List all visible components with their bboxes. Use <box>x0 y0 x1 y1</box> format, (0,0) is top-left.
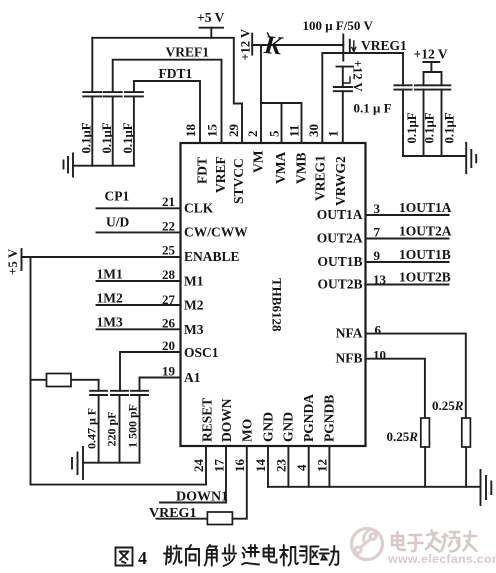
node 1M1 label <box>97 267 123 282</box>
svg-text:GND: GND <box>281 412 296 442</box>
wire ground bus (bottom) <box>268 486 479 488</box>
value label C1 0.1uF <box>80 122 94 153</box>
svg-text:14: 14 <box>253 459 268 473</box>
capacitor C3 0.1uF plates <box>125 92 143 96</box>
svg-text:OUT2B: OUT2B <box>317 277 362 292</box>
pin 13 label OUT2B <box>317 277 362 292</box>
op-amp U1 : THB6128 driver IC body <box>181 143 366 446</box>
wire right cap ground rail <box>403 155 466 157</box>
svg-text:NFA: NFA <box>336 326 363 341</box>
pin 2 label VM <box>251 150 266 173</box>
pin number 15 <box>205 124 220 138</box>
wire +12V to 100uF cap <box>252 44 343 46</box>
capacitor C11 1500pF plates <box>131 391 148 395</box>
pin number 2 <box>245 131 260 138</box>
value label C5 0.1uF <box>354 101 392 116</box>
pin number 17 <box>212 459 227 473</box>
power +12V supply bar (right) <box>414 47 448 63</box>
svg-text:15: 15 <box>205 124 220 138</box>
pin number 26 <box>162 316 176 331</box>
svg-text:29: 29 <box>226 124 241 138</box>
power +5V supply bar (top) <box>197 10 225 28</box>
watermark url www.elecfans.com <box>387 552 496 566</box>
pin 7 label OUT2A <box>317 231 363 246</box>
pin number 10 <box>373 348 386 363</box>
pin number 30 <box>306 124 321 137</box>
wire 1M3 to pin 26 <box>97 328 181 330</box>
wire C8 bottom lead <box>441 90 443 156</box>
pin number 22 <box>162 219 175 234</box>
pin number 5 <box>267 130 282 137</box>
svg-text:0.1μF: 0.1μF <box>443 112 457 143</box>
hanzi 向 <box>186 545 199 566</box>
pin number 25 <box>162 243 176 258</box>
svg-text:M2: M2 <box>184 298 204 313</box>
hanzi 动 <box>320 546 339 565</box>
svg-text:VREG1: VREG1 <box>313 155 328 201</box>
value label C2 0.1uF <box>100 122 114 153</box>
wire R3 bottom lead <box>424 447 426 487</box>
svg-text:0.1 μ F: 0.1 μ F <box>354 101 392 116</box>
svg-text:GND: GND <box>261 412 276 442</box>
pin number 28 <box>162 267 176 282</box>
pin 19 label A1 <box>184 370 201 385</box>
svg-text:11: 11 <box>287 125 302 137</box>
pin 22 label CW/CWW <box>184 225 248 240</box>
svg-text:10: 10 <box>373 348 386 363</box>
wire C11 bottom lead <box>139 395 141 463</box>
wire CP1 to pin 21 <box>97 207 181 209</box>
capacitor C8 0.1uF plates <box>433 85 450 89</box>
pin 25 label ENABLE <box>184 249 240 264</box>
svg-text:STVCC: STVCC <box>231 158 246 204</box>
pin number 14 <box>253 459 268 473</box>
wire cap C1 top lead <box>91 38 93 92</box>
node VREG1 (bottom) label <box>149 506 196 521</box>
pin 12 label PGNDB <box>322 395 337 442</box>
watermark logo circle <box>352 529 383 560</box>
wire pin 7 OUT2A <box>366 238 449 240</box>
node 1M2 label <box>97 291 123 306</box>
wire C9 top lead <box>98 380 100 391</box>
resistor R1 (left, horizontal) <box>31 374 99 387</box>
pin 9 label OUT1B <box>317 254 362 269</box>
wire R4 bottom lead <box>465 447 467 487</box>
pin number 16 <box>232 459 247 473</box>
svg-text:U/D: U/D <box>106 215 130 230</box>
pin number 21 <box>162 194 175 209</box>
pin number 12 <box>315 459 330 472</box>
pin 20 label OSC1 <box>184 345 219 360</box>
pin number 27 <box>162 292 176 307</box>
ground (top-left) <box>64 154 74 177</box>
svg-text:1 500 pF: 1 500 pF <box>126 404 140 448</box>
pin 10 label NFB <box>336 351 363 366</box>
pin 5 label VMA <box>273 152 288 184</box>
pin 28 label M1 <box>184 274 204 289</box>
svg-text:M1: M1 <box>184 274 204 289</box>
svg-text:3: 3 <box>374 201 381 216</box>
pin 3 label OUT1A <box>317 207 363 222</box>
power +12V supply (rotated, feeds VM/VMA/VMB) <box>239 29 253 61</box>
svg-text:K: K <box>262 30 284 61</box>
value label C10 220pF <box>105 411 119 446</box>
wire pin 5 VMA stub <box>281 103 283 143</box>
pin number 19 <box>162 364 176 379</box>
hanzi 航 <box>164 546 182 565</box>
pin number 1 <box>326 131 341 138</box>
capacitor C10 220pF plates <box>111 391 128 395</box>
wire pin 6 NFA to R4 <box>366 334 466 418</box>
capacitor C5 0.1uF plates <box>334 87 352 91</box>
svg-text:www.elecfans.com: www.elecfans.com <box>387 552 496 566</box>
wire C9 bottom lead <box>98 395 100 463</box>
svg-text:THB6128: THB6128 <box>270 278 285 332</box>
svg-text:VRWG2: VRWG2 <box>333 156 348 206</box>
wire pin 12 PGNDB stub <box>328 446 330 487</box>
pin 11 label VMB <box>294 153 309 185</box>
svg-text:1M3: 1M3 <box>97 315 123 330</box>
wire pin 3 OUT1A <box>366 214 449 216</box>
svg-text:9: 9 <box>374 248 381 263</box>
svg-text:2: 2 <box>245 131 260 138</box>
ground (mid-left) <box>72 447 83 479</box>
pin 29 label STVCC <box>231 158 246 204</box>
svg-text:VMA: VMA <box>273 152 288 184</box>
node 1OUT1A label <box>399 200 452 215</box>
wire VMA VMB branch <box>261 103 302 143</box>
svg-text:25: 25 <box>162 243 176 258</box>
svg-text:FDT: FDT <box>195 157 210 184</box>
wire pin 30 VREG1 net <box>322 53 403 143</box>
node U/D label <box>106 215 130 230</box>
svg-text:VREF1: VREF1 <box>166 45 210 60</box>
svg-text:28: 28 <box>162 267 176 282</box>
pin number 11 <box>287 125 302 137</box>
value label R4 0.25R <box>432 398 464 413</box>
pin number 13 <box>373 272 387 287</box>
pin number 7 <box>374 225 381 240</box>
wire +5V drop to rail <box>210 28 212 38</box>
wire C5 top lead <box>343 67 350 87</box>
pin 15 label VREF <box>213 156 228 193</box>
value label C8 0.1uF <box>443 112 457 143</box>
resistor R2 (bottom, horizontal) <box>207 512 232 525</box>
svg-text:5: 5 <box>267 130 282 137</box>
svg-text:VREF: VREF <box>213 156 228 193</box>
wire pin 14 GND stub <box>267 446 269 487</box>
svg-text:CLK: CLK <box>184 201 214 216</box>
pin number 6 <box>375 323 382 338</box>
node FDT1 label <box>159 66 193 81</box>
svg-text:OUT1B: OUT1B <box>317 254 362 269</box>
wire pin 1 VRWG2 lead <box>342 91 344 143</box>
svg-text:M3: M3 <box>184 322 204 337</box>
svg-text:4: 4 <box>138 548 147 568</box>
wire +5V horizontal rail to pin 29 <box>92 38 242 143</box>
wire VREG1 to resistor R2 <box>157 518 208 520</box>
svg-text:1OUT2B: 1OUT2B <box>399 270 451 285</box>
value label C3 0.1uF <box>121 122 135 153</box>
wire pin 2 VM drop <box>260 45 262 143</box>
svg-text:NFB: NFB <box>336 351 363 366</box>
svg-text:1: 1 <box>326 131 341 138</box>
resistor R4 0.25R (vertical) <box>462 418 471 447</box>
svg-text:DOWN: DOWN <box>219 398 234 442</box>
wire pin 4 PGNDA stub <box>308 446 310 487</box>
node VREG1 (top) label <box>361 38 407 53</box>
svg-text:0.47 μ F: 0.47 μ F <box>85 408 99 449</box>
wire C6 bottom lead <box>402 90 404 156</box>
svg-text:19: 19 <box>162 364 176 379</box>
svg-text:4: 4 <box>294 464 309 471</box>
hanzi 步 <box>223 545 237 567</box>
wire pin 9 OUT1B <box>366 261 449 263</box>
wire +5V to pin 25 ENABLE <box>22 256 181 258</box>
svg-text:+5 V: +5 V <box>197 10 225 25</box>
svg-text:22: 22 <box>162 219 175 234</box>
hanzi 角 <box>205 545 217 566</box>
wire C3 bottom lead <box>133 96 135 165</box>
svg-text:PGNDA: PGNDA <box>301 394 316 442</box>
pin 24 label RESET <box>200 398 215 442</box>
svg-text:+5 V: +5 V <box>5 248 20 275</box>
svg-text:6: 6 <box>375 323 382 338</box>
wire C2 bottom lead <box>112 96 114 165</box>
svg-text:26: 26 <box>162 316 176 331</box>
wire R2 to pin 16 MO <box>232 446 246 519</box>
node CP1 label <box>105 189 130 204</box>
watermark text 电子发烧友 (stroke approximation) <box>392 531 477 552</box>
caption 图4 航向角步进电机驱动 (stroke approximation) <box>116 545 339 567</box>
svg-text:7: 7 <box>374 225 381 240</box>
svg-text:RESET: RESET <box>200 398 215 442</box>
svg-text:OUT2A: OUT2A <box>317 231 363 246</box>
wire pin 10 NFB to R3 <box>366 359 425 418</box>
wire DOWN1 to pin 17 <box>160 446 226 503</box>
node 1OUT1B label <box>399 247 451 262</box>
wire pin 24 RESET to +5V rail <box>31 446 207 485</box>
svg-text:0.1μF: 0.1μF <box>423 112 437 143</box>
svg-text:+12 V: +12 V <box>239 29 253 61</box>
svg-text:VREG1: VREG1 <box>361 38 407 53</box>
wire pin 23 GND stub <box>287 446 289 487</box>
svg-text:30: 30 <box>306 124 321 137</box>
pin 4 label PGNDA <box>301 394 316 442</box>
node 1OUT2A label <box>399 224 452 239</box>
svg-text:VMB: VMB <box>294 153 309 185</box>
value label C7 0.1uF <box>423 112 437 143</box>
hanzi 机 <box>280 545 298 566</box>
annotation K mark on +12V wire <box>262 30 284 61</box>
ground (bottom-right) <box>481 470 492 505</box>
wire pin 13 OUT2B <box>366 284 449 286</box>
wire bottom cap ground rail <box>83 462 140 464</box>
pin number 3 <box>374 201 381 216</box>
wire VREF1 net to pin 15 <box>113 60 222 143</box>
node VREF1 label <box>166 45 210 60</box>
value label R3 0.25R <box>387 429 419 444</box>
capacitor C2 0.1uF plates <box>104 92 122 96</box>
svg-text:ENABLE: ENABLE <box>184 249 240 264</box>
svg-text:PGNDB: PGNDB <box>322 395 337 442</box>
svg-text:CW/CWW: CW/CWW <box>184 225 248 240</box>
wire U/D to pin 22 <box>97 231 181 233</box>
svg-text:0.25R: 0.25R <box>432 398 464 413</box>
svg-text:0.1μF: 0.1μF <box>121 122 135 153</box>
resistor R3 0.25R (vertical) <box>421 418 430 447</box>
svg-text:220 pF: 220 pF <box>105 411 119 446</box>
ground (top-right) <box>466 143 476 173</box>
capacitor C7 0.1uF plates <box>415 85 432 89</box>
pin 26 label M3 <box>184 322 204 337</box>
pin number 9 <box>374 248 381 263</box>
svg-text:21: 21 <box>162 194 175 209</box>
wire 1M1 to pin 28 <box>97 280 181 282</box>
hanzi 进 <box>242 545 259 565</box>
pin number 24 <box>191 459 206 473</box>
pin 30 label VREG1 <box>313 155 328 201</box>
svg-text:0.1μF: 0.1μF <box>405 112 419 143</box>
svg-text:18: 18 <box>183 124 198 138</box>
pin 14 label GND <box>261 412 276 442</box>
capacitor C4 100uF/50V electrolytic <box>343 34 356 60</box>
pin number 29 <box>226 124 241 138</box>
value label C11 1500pF <box>126 404 140 448</box>
value label 100uF/50V <box>303 18 374 33</box>
svg-text:100 μ F/50 V: 100 μ F/50 V <box>303 18 374 33</box>
svg-text:OSC1: OSC1 <box>184 345 219 360</box>
svg-text:17: 17 <box>212 459 227 473</box>
pin 23 label GND <box>281 412 296 442</box>
svg-text:VM: VM <box>251 150 266 173</box>
wire cap ground rail <box>73 165 134 167</box>
pin 6 label NFA <box>336 326 363 341</box>
svg-text:1OUT1A: 1OUT1A <box>399 200 452 215</box>
wire pin 19 A1 to C11 <box>140 378 181 391</box>
pin 18 label FDT <box>195 157 210 184</box>
wire 1M2 to pin 27 <box>97 304 181 306</box>
hanzi 图 <box>116 548 133 566</box>
hanzi 电 <box>264 545 277 563</box>
wire left +5V rail vertical <box>30 257 32 485</box>
pin 17 label DOWN <box>219 398 234 442</box>
svg-text:OUT1A: OUT1A <box>317 207 363 222</box>
capacitor C1 0.1uF plates <box>83 92 101 96</box>
svg-text:CP1: CP1 <box>105 189 130 204</box>
capacitor C6 0.1uF plates <box>394 85 411 89</box>
pin number 20 <box>162 338 175 353</box>
wire C10 bottom lead <box>119 395 121 463</box>
node 1OUT2B label <box>399 270 451 285</box>
svg-text:16: 16 <box>232 459 247 473</box>
power +5V supply bar (left rail) <box>5 248 22 275</box>
node DOWN1 label <box>176 490 228 505</box>
value label C6 0.1uF <box>405 112 419 143</box>
wire pin 20 OSC1 to C10 <box>120 352 181 391</box>
pin number 18 <box>183 124 198 138</box>
svg-text:FDT1: FDT1 <box>159 66 193 81</box>
value label C9 0.47uF <box>85 408 99 449</box>
pin number 23 <box>274 459 289 473</box>
pin 1 label VRWG2 <box>333 156 348 206</box>
svg-text:24: 24 <box>191 459 206 473</box>
svg-text:20: 20 <box>162 338 175 353</box>
svg-text:23: 23 <box>274 459 289 473</box>
hanzi 驱 <box>300 547 319 565</box>
power +12V supply (for C5, rotated reading down) <box>337 60 365 92</box>
svg-text:+12 V: +12 V <box>414 47 448 62</box>
pin 16 label MO <box>240 419 255 442</box>
capacitor C9 0.47uF plates <box>90 391 107 395</box>
pin 27 label M2 <box>184 298 204 313</box>
wire C7 bottom lead <box>423 90 425 156</box>
wire C1 bottom lead <box>91 96 93 165</box>
svg-text:MO: MO <box>240 419 255 442</box>
wire FDT1 net to pin 18 <box>134 81 200 143</box>
svg-text:1OUT2A: 1OUT2A <box>399 224 452 239</box>
svg-text:1OUT1B: 1OUT1B <box>399 247 451 262</box>
svg-text:1M2: 1M2 <box>97 291 123 306</box>
pin number 4 <box>294 464 309 471</box>
svg-text:1M1: 1M1 <box>97 267 123 282</box>
svg-text:A1: A1 <box>184 370 201 385</box>
svg-text:12: 12 <box>315 459 330 472</box>
node 1M3 label <box>97 315 123 330</box>
svg-text:0.25R: 0.25R <box>387 429 419 444</box>
pin 21 label CLK <box>184 201 214 216</box>
wire +12V drop to C7 C8 bridge <box>424 62 442 85</box>
